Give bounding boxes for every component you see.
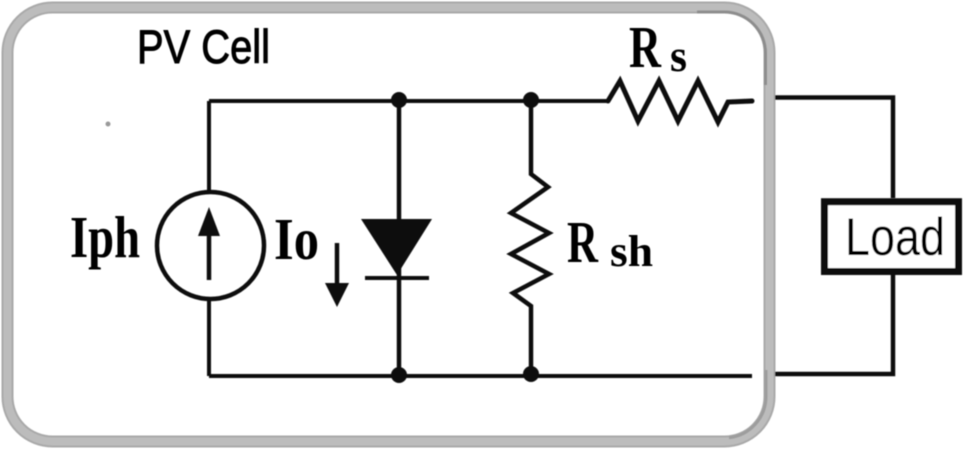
svg-text:Iph: Iph	[70, 204, 140, 270]
load box	[825, 202, 959, 272]
stray speck	[106, 122, 111, 127]
node dot bottom-left junction	[391, 367, 407, 383]
resistor Rsh	[511, 101, 549, 375]
svg-text:Load: Load	[845, 208, 945, 267]
svg-text:R: R	[629, 14, 662, 80]
arrow Io (downward)	[335, 243, 340, 288]
node dot top-right junction	[523, 92, 539, 108]
svg-text:R: R	[567, 209, 599, 275]
svg-text:PV Cell: PV Cell	[137, 20, 270, 73]
resistor Rs	[608, 81, 752, 122]
wire top horizontal	[209, 99, 608, 103]
PV cell outer rounded border	[8, 8, 770, 442]
node dot bottom-right junction	[523, 366, 539, 382]
diode D	[361, 219, 432, 275]
wire diode branch	[397, 101, 402, 375]
svg-text:s: s	[670, 30, 687, 81]
wire left branch (current source)	[207, 101, 211, 376]
current source Iph	[157, 192, 264, 299]
wire outside bottom from load	[775, 275, 893, 374]
wire outside top to load	[775, 98, 893, 199]
wire bottom horizontal	[209, 374, 752, 378]
svg-text:sh: sh	[610, 227, 653, 276]
node dot top-left junction	[391, 92, 407, 108]
svg-text:Io: Io	[274, 206, 319, 272]
